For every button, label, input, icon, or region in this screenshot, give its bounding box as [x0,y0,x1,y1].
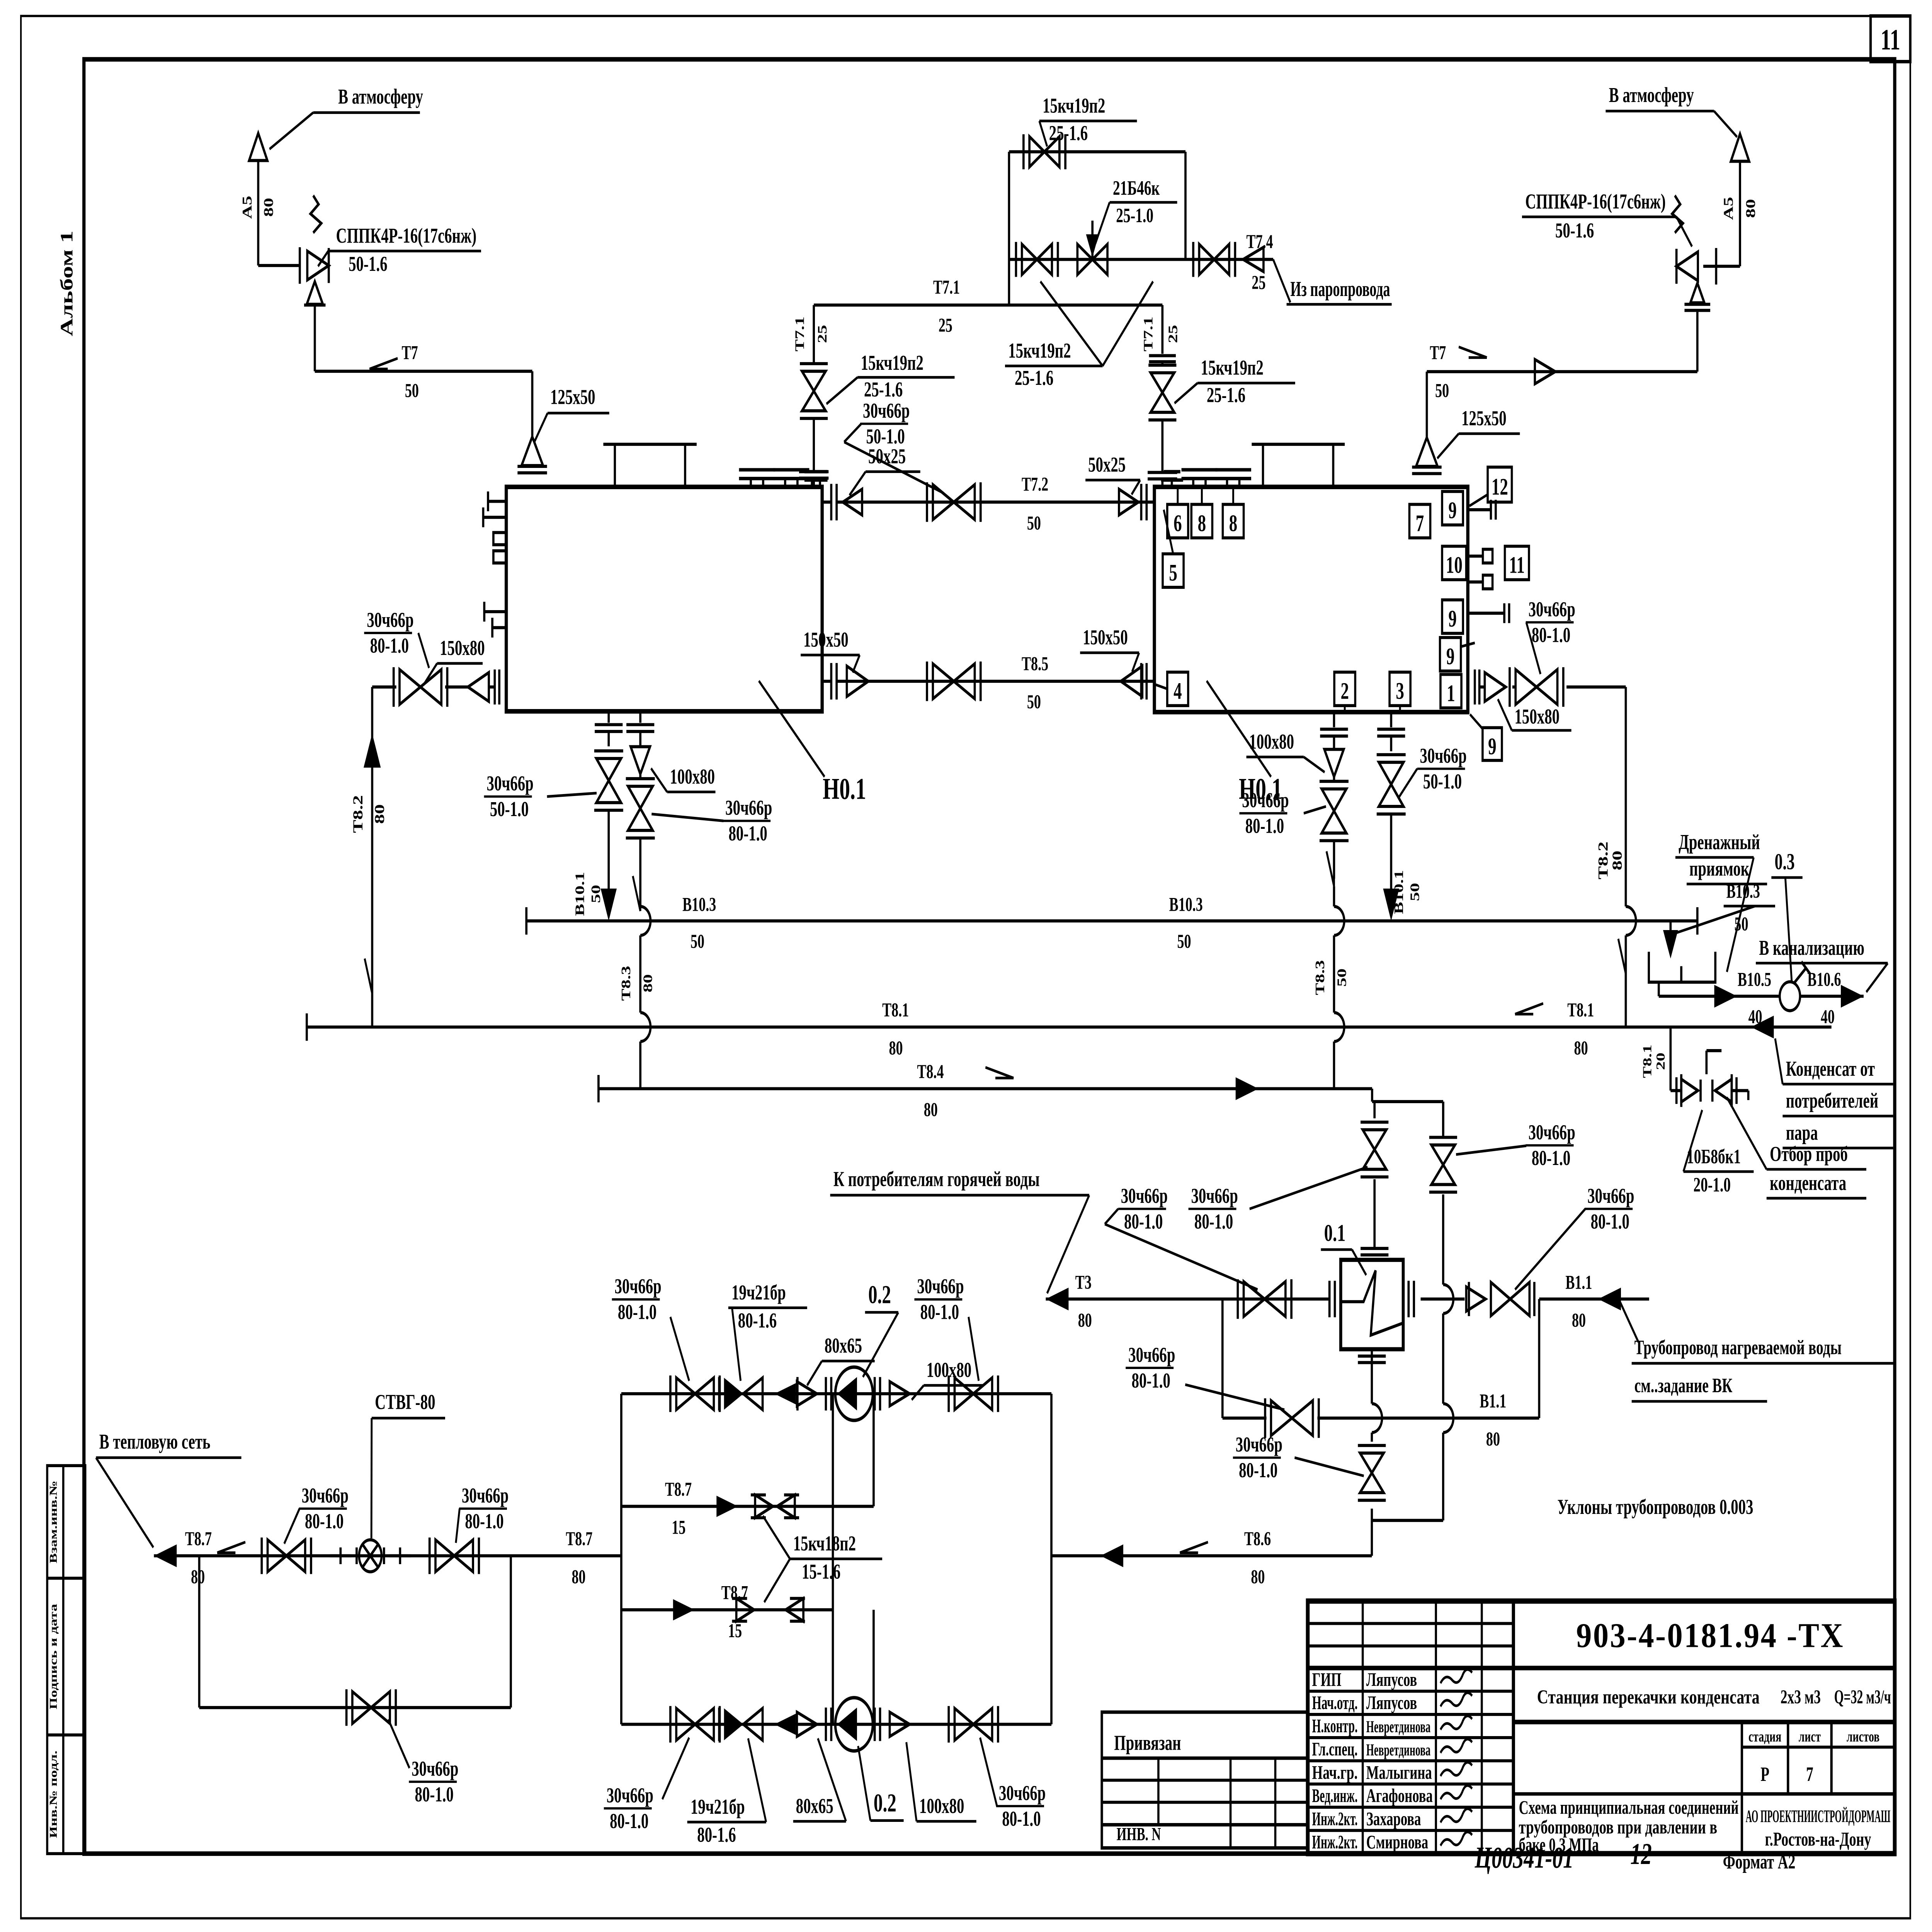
svg-text:Невретдинова: Невретдинова [1366,1741,1431,1759]
reducer 150x50 right [1121,666,1143,697]
pipe to Т8.2 riser [372,685,396,689]
pump 0.2 lower [835,1698,873,1751]
tank1 left exit flange [498,670,501,705]
tank Н0.1 right [1155,487,1468,712]
arrow В1.1 [1598,1287,1621,1310]
svg-text:Взам.инв.№: Взам.инв.№ [48,1481,59,1563]
svg-text:0.2: 0.2 [868,1280,891,1309]
valve 30ч66р bypass heat [352,1692,371,1724]
valve 19ч21бр pump2 [724,1708,743,1740]
flow mark Т8.6 [1180,1542,1208,1553]
svg-text:80: 80 [1486,1428,1500,1450]
valve 15кч19п2 bottom left [1022,244,1037,275]
svg-text:В атмосферу: В атмосферу [1609,83,1694,107]
privyazan table [1102,1712,1308,1848]
svg-text:25-1.6: 25-1.6 [1015,367,1053,390]
svg-text:Т8.2: Т8.2 [1595,842,1611,879]
svg-text:Q=32 м3/ч: Q=32 м3/ч [1834,1686,1891,1708]
svg-text:19ч21бр: 19ч21бр [731,1281,786,1304]
title block grid [1308,1601,1895,1854]
arrow Т8.7 lower [673,1599,695,1621]
svg-text:6: 6 [1173,510,1182,536]
pipe below safety valve left [313,305,316,371]
bypass right header [1184,152,1187,260]
svg-text:80-1.0: 80-1.0 [1239,1459,1277,1482]
leader 15кч18п2 b [764,1559,790,1602]
box 2 [1334,672,1355,706]
check Т7 right [1535,359,1555,384]
tank2 drain В10.1 lower [1389,814,1393,890]
jump B1.1 over T3 [1443,1284,1453,1313]
leader to vent left [269,112,313,149]
svg-text:Привязан: Привязан [1114,1731,1181,1755]
svg-text:Станция перекачки конденсата: Станция перекачки конденсата [1537,1686,1760,1708]
svg-text:30ч66р: 30ч66р [1128,1344,1175,1367]
svg-text:В10.3: В10.3 [682,894,716,916]
svg-text:25: 25 [1166,325,1180,343]
svg-text:СТВГ-80: СТВГ-80 [375,1391,435,1414]
svg-text:25: 25 [939,314,952,336]
svg-text:Гл.спец.: Гл.спец. [1312,1739,1358,1760]
svg-text:7: 7 [1416,510,1424,536]
tank1 level gauge 2 [493,551,506,563]
bypass Т8.7 up right [509,1556,512,1708]
pipe Т8.1 [307,1026,1832,1029]
leader К потребителям [1047,1195,1089,1293]
drop Т8.1-20 [1669,1027,1672,1090]
svg-text:Инв.№ подл.: Инв.№ подл. [48,1750,59,1838]
flange pump2 out [873,1708,876,1741]
box 6 [1167,504,1188,538]
arrow pump1 suction [774,1383,796,1404]
check pump2 [797,1712,816,1736]
svg-text:В10.5: В10.5 [1738,969,1771,991]
pipe В10.6 [1800,995,1864,998]
pipe Т8.6 [1051,1554,1372,1557]
valve 30ч66р drain2 [628,786,653,808]
pipe drop to tank1 vent [531,371,534,437]
svg-text:15кч19п2: 15кч19п2 [1008,339,1071,362]
tank2 drain Т8.3 pipe [1332,712,1335,727]
tank1 nozzle b [784,478,787,487]
svg-text:г.Ростов-на-Дону: г.Ростов-на-Дону [1765,1828,1871,1850]
valve 15кч19п2 tank2 [1149,354,1176,357]
svg-text:50: 50 [1027,691,1041,713]
sampling cooler 0.3 [1780,982,1800,1011]
sampling valves 10Б8бк1 [1670,1089,1680,1092]
svg-text:30ч66р: 30ч66р [999,1782,1046,1805]
svg-text:Т8.4: Т8.4 [917,1061,944,1083]
svg-text:Формат А2: Формат А2 [1723,1850,1796,1873]
pipe pump1 line [621,1392,1051,1395]
svg-text:30ч66р: 30ч66р [615,1275,662,1298]
svg-text:Т8.1: Т8.1 [1567,999,1594,1021]
pipe В10.5 [1657,982,1660,996]
svg-text:Нач.отд.: Нач.отд. [1312,1692,1358,1713]
title signatures [1440,1670,1472,1684]
box 9 low [1440,638,1461,671]
svg-text:30ч66р: 30ч66р [863,400,910,423]
svg-text:Т8.7: Т8.7 [185,1528,212,1550]
svg-text:30ч66р: 30ч66р [607,1784,653,1807]
pump 0.2 upper [835,1367,873,1420]
svg-text:Т8.1: Т8.1 [1641,1044,1654,1078]
pipe B1.1 right of 0.1 [1421,1298,1465,1301]
tick b [389,1554,411,1557]
svg-text:В10.3: В10.3 [1726,880,1760,902]
svg-text:см..задание ВК: см..задание ВК [1634,1374,1733,1397]
valve 30ч66р pump2 out [955,1708,974,1740]
box 12 [1488,467,1512,502]
svg-text:30ч66р: 30ч66р [1242,789,1289,812]
box 3 [1389,672,1410,706]
tank1 drain Т8.3 pipe [639,711,642,723]
svg-text:19ч21бр: 19ч21бр [690,1795,745,1818]
svg-text:80: 80 [1574,1037,1588,1059]
svg-text:Т8.3: Т8.3 [619,966,633,1001]
svg-text:Схема принципиальная соединени: Схема принципиальная соединений [1519,1797,1739,1818]
svg-text:80x65: 80x65 [796,1794,833,1818]
svg-text:80: 80 [1743,199,1758,218]
leader 15кч18п2 a [763,1516,790,1559]
pipe to safety valve left [258,264,300,267]
svg-text:30ч66р: 30ч66р [462,1484,509,1507]
tank1 drain Т8.3 lower [639,838,642,906]
svg-text:80-1.0: 80-1.0 [1194,1210,1233,1233]
flow mark Т7 left [369,358,398,369]
valve 19ч21бр pump1 [724,1378,743,1410]
svg-text:150x50: 150x50 [803,628,849,651]
riser Т8.2 left [371,687,374,1027]
svg-text:25: 25 [815,325,829,343]
svg-text:15-1.6: 15-1.6 [802,1560,840,1583]
drop 0.1 bottom [1358,1354,1386,1357]
svg-text:15кч19п2: 15кч19п2 [1201,356,1264,379]
svg-text:80: 80 [924,1099,938,1121]
valve 30ч66р drain1 [596,759,621,781]
tank2 drain Т8.3 lower [1332,841,1335,879]
svg-text:30ч66р: 30ч66р [1587,1184,1634,1207]
box 8a [1191,504,1212,538]
valve 15кч18п2 upper [755,1495,773,1518]
svg-text:В атмосферу: В атмосферу [338,85,423,108]
svg-text:10: 10 [1446,552,1463,578]
svg-text:Т8.7: Т8.7 [665,1478,692,1500]
svg-text:50-1.0: 50-1.0 [490,798,529,821]
flow mark riser left [365,959,372,994]
pump header right [1050,1394,1053,1724]
svg-text:30ч66р: 30ч66р [1236,1433,1282,1456]
svg-text:Т7.1: Т7.1 [1141,316,1155,352]
svg-text:Инж.2кт.: Инж.2кт. [1312,1832,1358,1853]
svg-text:Т8.7: Т8.7 [721,1582,748,1604]
check valve B1.1 [1466,1287,1486,1311]
svg-text:Т8.2: Т8.2 [350,795,366,833]
flange pump1 out [873,1377,876,1411]
svg-text:лист: лист [1799,1728,1821,1745]
arrow Т8.4 [1236,1077,1259,1100]
svg-text:0.2: 0.2 [874,1788,896,1817]
svg-text:В10.1: В10.1 [573,872,587,916]
pipe Т3 [1046,1298,1329,1301]
svg-text:50: 50 [1335,968,1349,986]
svg-text:12: 12 [1492,474,1508,500]
safety valve СППК right [1677,252,1698,281]
svg-text:СППК4Р-16(17с6нж): СППК4Р-16(17с6нж) [1525,190,1666,213]
svg-text:15кч18п2: 15кч18п2 [793,1532,856,1555]
svg-text:Инж.2кт.: Инж.2кт. [1312,1809,1358,1830]
arrow Т3 [1046,1287,1068,1310]
svg-text:30ч66р: 30ч66р [302,1484,349,1507]
drop 0.1 left [1373,1102,1376,1118]
leader отбор [1727,1097,1767,1169]
pump2 seal drop b [872,1610,875,1724]
tank2 nozzle stub a [1170,480,1173,487]
tank2 nozzle b [1192,478,1195,487]
tank1 drain В10.1 pipe [607,711,610,723]
reducer 150x80 left [468,673,489,702]
svg-text:Т8.6: Т8.6 [1244,1528,1271,1550]
check pump1 out [890,1382,910,1406]
svg-text:80-1.0: 80-1.0 [1591,1210,1629,1233]
svg-text:Агафонова: Агафонова [1366,1786,1433,1806]
tank1 drain В10.1 lower [607,810,610,890]
svg-text:2х3 м3: 2х3 м3 [1781,1686,1821,1708]
svg-text:Т7: Т7 [1430,342,1446,364]
svg-text:Р: Р [1760,1763,1769,1786]
pipe to Т8.6 [1370,1509,1373,1520]
flange 0.1 left [1328,1281,1331,1318]
svg-text:А5: А5 [1721,197,1736,220]
pipe Т8.4 [599,1087,1372,1090]
svg-text:В10.6: В10.6 [1807,969,1841,991]
reducer 100x80 drain2 [631,747,650,774]
svg-text:Т3: Т3 [1075,1271,1092,1293]
svg-text:Т7: Т7 [402,342,418,364]
leader Трубопровод [1620,1301,1639,1342]
svg-text:15: 15 [672,1516,685,1538]
svg-text:50: 50 [690,930,704,952]
svg-text:9: 9 [1448,498,1457,524]
svg-text:1: 1 [1447,680,1455,706]
tank Н0.1 left [506,487,822,711]
valve 30ч66р drain В10.1 right [1379,762,1403,784]
arrow В тепловую [154,1544,177,1567]
svg-text:30ч66р: 30ч66р [1529,598,1575,621]
tank1 manhole [613,444,616,487]
arrow Т8.1 right [1751,1015,1774,1038]
pump1 seal drop a [831,1394,834,1610]
svg-text:Т7.4: Т7.4 [1247,231,1273,253]
box 9 outside [1483,728,1502,760]
svg-text:25-1.6: 25-1.6 [1207,384,1245,407]
svg-text:В10.1: В10.1 [1391,870,1406,914]
pipe Т8.4 tail right [1442,1102,1445,1134]
tank1 left stub 1 [488,500,506,503]
pipe Т7.1 [814,303,1162,306]
check pump1 [797,1382,816,1406]
reducer 125x50 tank1 [522,437,543,466]
box 1 [1440,674,1461,708]
svg-text:9: 9 [1488,734,1497,760]
svg-text:А5: А5 [240,196,255,219]
box 8b [1223,504,1243,538]
svg-text:Альбом 1: Альбом 1 [57,231,77,337]
arrow Т8.6 [1100,1544,1123,1567]
svg-text:80x65: 80x65 [825,1334,862,1357]
flange pump1 in [824,1377,827,1411]
svg-text:Т7.1: Т7.1 [933,276,960,298]
svg-text:3: 3 [1396,678,1404,704]
svg-text:11: 11 [1881,24,1900,56]
tank1 left stub 2 [483,516,507,519]
pipe Т8.7 lower [621,1608,833,1611]
tank2 right stub 1 [1468,508,1491,511]
tank2 right exit flange [1473,670,1476,705]
valve 30ч66р heat net b [435,1540,454,1572]
svg-text:приямок: приямок [1689,857,1750,881]
tank1 level gauge 1 [493,532,506,545]
svg-text:Т8.7: Т8.7 [566,1528,592,1550]
svg-text:100x80: 100x80 [919,1794,964,1818]
svg-text:21Б46к: 21Б46к [1113,177,1160,199]
valve 30ч66р Т3 [1244,1282,1265,1317]
leader 15кч19п2 v2 [1103,281,1153,366]
svg-text:Уклоны трубопроводов 0.003: Уклоны трубопроводов 0.003 [1558,1496,1753,1519]
bypass top branch [1009,150,1185,153]
tank1 left stub 3 [484,610,506,613]
svg-text:АО ПРОЕКТНИИСТРОЙДОРМАШ: АО ПРОЕКТНИИСТРОЙДОРМАШ [1746,1806,1891,1826]
bypass Т8.7 down left [198,1556,201,1708]
bypass bottom branch [1009,258,1270,261]
svg-text:50: 50 [1435,380,1449,402]
arrow В10.6 [1841,985,1864,1008]
svg-text:15кч19п2: 15кч19п2 [861,351,923,374]
svg-text:80: 80 [1572,1310,1586,1332]
svg-text:8: 8 [1198,510,1206,536]
svg-text:9: 9 [1446,644,1455,670]
flow mark riser right [1618,939,1626,974]
svg-text:80: 80 [261,198,276,217]
leader СППК left [318,251,328,266]
svg-text:СППК4Р-16(17с6нж): СППК4Р-16(17с6нж) [336,224,477,248]
svg-text:80-1.0: 80-1.0 [1124,1210,1163,1233]
tank1 nozzle c [810,480,813,487]
svg-text:125x50: 125x50 [550,386,595,409]
svg-text:50: 50 [1735,913,1748,935]
flow mark Т8.3 right [1327,851,1334,886]
svg-text:80-1.0: 80-1.0 [728,822,767,845]
svg-text:9: 9 [1448,606,1457,632]
box 7 [1409,504,1430,538]
valve 30ч66р tank2 right [1515,670,1536,705]
svg-text:50: 50 [1408,883,1422,901]
pipe Т7 left [315,370,532,373]
pipe pump2 line [621,1723,1051,1726]
tank1 Т8.5 nozzle [822,680,831,683]
svg-text:50-1.0: 50-1.0 [1423,770,1462,793]
svg-text:80-1.0: 80-1.0 [1532,624,1570,647]
svg-text:50-1.6: 50-1.6 [349,253,387,276]
СТВГ-80 [359,1540,381,1572]
arrow В10.5 [1714,985,1737,1008]
valve 15кч19п2 Т7.4 [1199,244,1214,275]
reducer 50x25 left [843,489,862,515]
box 9 top [1442,492,1463,525]
svg-text:5: 5 [1169,560,1177,586]
heat exchanger 0.1 [1341,1260,1403,1349]
svg-text:80-1.0: 80-1.0 [465,1510,503,1533]
valve 30ч66р drain right [1322,789,1347,811]
svg-text:Отбор проб: Отбор проб [1770,1143,1848,1166]
svg-text:0.3: 0.3 [1775,849,1795,874]
svg-text:потребителей: потребителей [1786,1089,1878,1112]
svg-text:40: 40 [1748,1006,1762,1028]
flow mark Т8.4 [985,1067,1014,1078]
svg-text:40: 40 [1821,1006,1835,1028]
svg-text:Ц00341-01: Ц00341-01 [1475,1840,1574,1874]
svg-text:Ляпусов: Ляпусов [1366,1692,1417,1713]
svg-text:50: 50 [589,885,603,903]
svg-text:25-1.6: 25-1.6 [1049,122,1088,145]
valve 15кч19п2 tank1 [812,418,815,472]
bypass В1.1 line [1221,1299,1224,1418]
svg-text:25-1.0: 25-1.0 [1116,204,1153,227]
svg-text:30ч66р: 30ч66р [725,796,772,820]
tank1 Т7.2 nozzle [822,500,831,503]
arrow Т8.7 upper [716,1496,738,1517]
svg-text:Вед.инж.: Вед.инж. [1312,1786,1358,1806]
svg-text:Захарова: Захарова [1366,1809,1421,1830]
svg-text:листов: листов [1847,1728,1879,1745]
pipe Т7.2 [837,500,1154,503]
svg-text:80: 80 [372,804,387,824]
reducer 150x80 right [1485,673,1505,702]
svg-text:Подпись и дата: Подпись и дата [48,1604,59,1709]
leader pit [1727,857,1753,972]
bypass Т8.7 line [199,1706,511,1709]
safety valve СППК left [307,251,329,280]
svg-text:150x80: 150x80 [440,637,485,660]
tick a [330,1554,352,1557]
svg-text:В1.1: В1.1 [1480,1390,1506,1412]
check pump2 out [890,1712,910,1736]
svg-text:стадия: стадия [1748,1728,1781,1745]
svg-text:50: 50 [405,380,419,402]
control valve 21Б46к [1077,244,1092,275]
svg-text:Т8.1: Т8.1 [882,999,909,1021]
arrow Т7.4 [1243,247,1264,272]
svg-text:Н0.1: Н0.1 [823,772,866,806]
pipe Т7 right [1427,370,1697,373]
svg-text:80: 80 [889,1037,903,1059]
flow mark Т8.7 [217,1542,245,1553]
svg-text:Невретдинова: Невретдинова [1366,1718,1431,1736]
svg-text:К потребителям горячей воды: К потребителям горячей воды [833,1168,1040,1191]
pipe Т8.5 [837,680,1154,683]
svg-text:25-1.6: 25-1.6 [864,378,903,401]
valve 30ч66р Т7.2 [933,485,954,520]
svg-text:80: 80 [572,1566,586,1588]
flow mark Т7 right [1459,347,1487,358]
valve 30ч66р upper right [1442,1102,1445,1138]
valve 30ч66р pump1 in [676,1378,695,1410]
svg-text:Т8.5: Т8.5 [1022,653,1048,675]
svg-text:ГИП: ГИП [1312,1669,1342,1690]
svg-text:50: 50 [1177,930,1191,952]
svg-text:80-1.0: 80-1.0 [920,1301,959,1324]
svg-text:80-1.0: 80-1.0 [305,1510,344,1533]
